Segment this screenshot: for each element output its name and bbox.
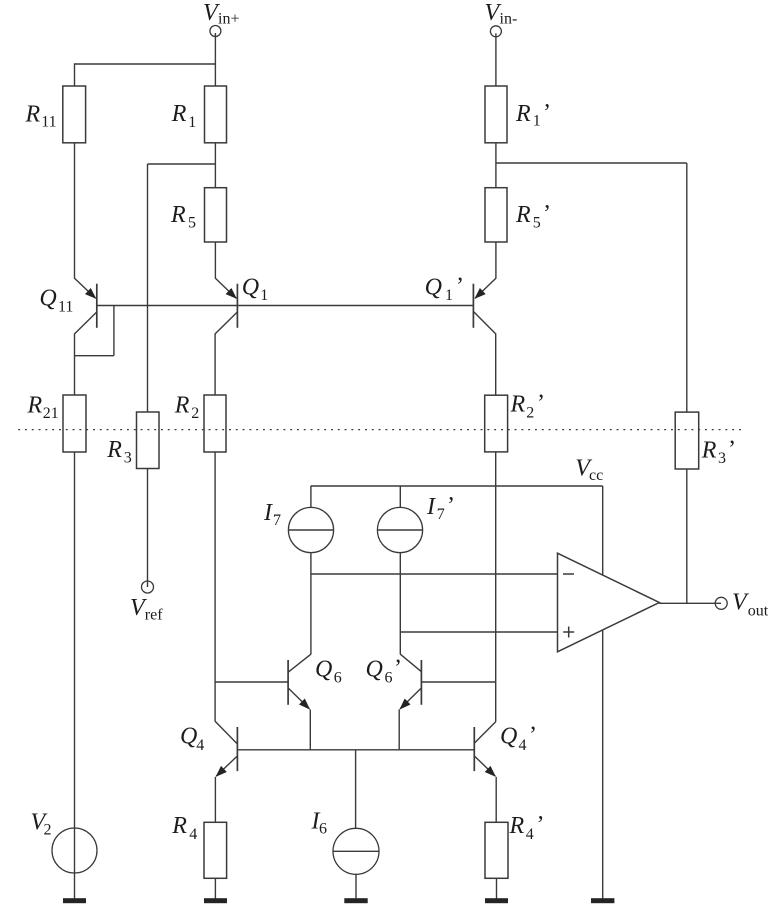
resistor R5 — [205, 188, 227, 242]
transistor Q4 collector — [215, 721, 237, 743]
svg-text:R: R — [509, 813, 525, 839]
transistor Q4 emitter — [216, 756, 237, 777]
transistor Q4' base bar — [473, 727, 475, 771]
wire base bus Q11-Q1-Q1p — [97, 305, 474, 307]
transistor Q1' collector — [474, 312, 496, 334]
svg-text:2: 2 — [191, 405, 199, 422]
wire top-left horizontal — [75, 63, 216, 65]
transistor Q1' base bar — [472, 284, 474, 328]
svg-text:1: 1 — [445, 287, 453, 304]
transistor Q11 base bar — [96, 284, 98, 328]
wire op-amp output — [659, 602, 721, 604]
wire Q6 base — [215, 681, 288, 683]
svg-text:7: 7 — [273, 512, 281, 529]
resistor R3' — [675, 412, 699, 469]
svg-text:in-: in- — [500, 11, 518, 28]
current source I7' — [377, 507, 422, 552]
transistor Q4 base bar — [236, 727, 238, 771]
ground under R4' — [485, 898, 508, 903]
label R1' — [515, 100, 551, 130]
source V2 — [52, 828, 97, 873]
wire Q1p collector to R2p — [495, 334, 497, 396]
svg-text:6: 6 — [319, 821, 327, 838]
svg-text:R: R — [174, 393, 190, 419]
label R5 — [170, 202, 196, 232]
ground under Vcc — [591, 898, 614, 903]
label R3 — [106, 437, 132, 467]
wire Q6' base — [421, 681, 495, 683]
label Q4 — [180, 724, 204, 755]
label Q1 — [242, 275, 268, 305]
svg-text:2: 2 — [44, 822, 52, 839]
label Q1' — [425, 274, 464, 305]
wire Vin+ to R1 — [214, 33, 216, 86]
svg-text:Q: Q — [500, 724, 517, 750]
svg-text:3: 3 — [718, 450, 726, 467]
svg-text:4: 4 — [519, 737, 527, 754]
svg-text:R: R — [171, 101, 187, 127]
label R3' — [701, 437, 736, 468]
ground under R4 — [204, 898, 227, 903]
wire branch right horizontal — [496, 162, 687, 164]
wire Q6p emitter down — [398, 710, 400, 750]
svg-text:4: 4 — [196, 737, 204, 754]
svg-text:R: R — [701, 438, 717, 464]
svg-text:’: ’ — [543, 201, 551, 227]
svg-text:Q: Q — [39, 286, 56, 312]
transistor Q1' emitter — [474, 278, 496, 299]
wire down to R11 — [74, 63, 76, 86]
resistor R4' — [485, 822, 508, 878]
svg-text:R: R — [170, 202, 186, 228]
transistor Q1 emitter — [215, 278, 237, 299]
resistor R3 — [137, 412, 160, 469]
current source I7 — [288, 507, 333, 552]
svg-text:’: ’ — [529, 723, 537, 749]
label Q6' — [366, 656, 403, 687]
label Q6 — [315, 657, 342, 687]
op-amp U1 — [558, 553, 660, 652]
svg-text:’: ’ — [537, 391, 545, 417]
label R4 — [171, 813, 197, 843]
label R11 — [25, 101, 57, 130]
transistor Q6 base bar — [287, 660, 289, 705]
label R2' — [510, 391, 546, 422]
op-amp minus sign — [563, 573, 574, 575]
terminal Vref — [142, 581, 154, 593]
svg-text:5: 5 — [188, 215, 196, 232]
svg-text:R: R — [27, 393, 43, 419]
wire Q4p emitter to R4p — [495, 777, 497, 823]
transistor Q11 emitter — [75, 278, 97, 299]
svg-text:V: V — [732, 590, 749, 616]
resistor R1' — [485, 86, 507, 143]
wire I6 to ground — [355, 874, 357, 899]
transistor Q6' base bar — [420, 660, 422, 705]
wire Q11 diode stub horizontal — [75, 355, 114, 357]
svg-text:R: R — [25, 101, 41, 127]
terminal Vin- — [490, 26, 501, 37]
svg-text:’: ’ — [728, 437, 736, 463]
svg-text:6: 6 — [385, 670, 393, 687]
wire R2 down to Q4 collector — [214, 452, 216, 722]
transistor Q6' emitter — [399, 688, 421, 709]
label Q11 — [39, 286, 73, 316]
terminal Vin+ — [210, 26, 221, 37]
wire op-amp plus input — [400, 631, 557, 633]
wire Q11 diode stub vertical — [113, 306, 115, 356]
wire I7p to Q6p collector — [399, 553, 401, 655]
svg-text:11: 11 — [58, 299, 73, 316]
svg-text:1: 1 — [533, 113, 541, 130]
svg-text:I: I — [426, 494, 436, 520]
svg-text:’: ’ — [447, 493, 455, 519]
svg-text:R: R — [171, 813, 187, 839]
svg-text:1: 1 — [188, 114, 196, 131]
ground under I6 — [344, 898, 367, 903]
wire R1p to R5p — [495, 143, 497, 188]
resistor R1 — [205, 86, 227, 143]
label Vcc — [575, 456, 603, 485]
ground under V2 — [63, 898, 86, 903]
label Q4' — [500, 723, 537, 755]
label I7' — [426, 493, 455, 523]
svg-text:5: 5 — [533, 215, 541, 232]
svg-text:out: out — [748, 602, 769, 619]
wire R5p to Q1p emitter — [495, 242, 497, 279]
svg-text:R: R — [515, 202, 531, 228]
svg-text:Q: Q — [425, 275, 442, 301]
wire R3 column — [147, 164, 149, 412]
svg-text:’: ’ — [537, 812, 545, 838]
svg-text:R: R — [510, 392, 526, 418]
wire Q11 collector down — [74, 334, 76, 396]
svg-text:2: 2 — [526, 405, 534, 422]
transistor Q4' collector — [474, 722, 496, 744]
svg-text:Q: Q — [366, 657, 383, 683]
wire branch left horizontal — [148, 163, 216, 165]
label Vout — [732, 590, 769, 620]
op-amp plus sign — [563, 627, 574, 638]
wire Q4 emitter to R4 — [214, 777, 216, 823]
svg-text:6: 6 — [334, 670, 342, 687]
svg-text:3: 3 — [124, 450, 132, 467]
wire I7 top stub — [310, 486, 312, 507]
label R5' — [515, 201, 551, 232]
terminal Vout — [715, 597, 727, 609]
label R1 — [171, 101, 197, 131]
dotted symmetry line — [18, 429, 742, 431]
current source I6 — [333, 828, 379, 874]
wire R3p to output node — [686, 469, 688, 603]
wire R2p down to Q4p collector — [495, 452, 497, 722]
wire Vin- to R1p — [495, 33, 497, 86]
transistor Q11 collector — [75, 312, 98, 334]
wire I7 to Q6 collector — [310, 553, 312, 655]
resistor R4 — [204, 822, 227, 878]
wire op-amp minus input — [311, 573, 558, 575]
svg-text:cc: cc — [589, 467, 603, 484]
transistor Q6' collector — [400, 654, 421, 672]
wire Vcc vertical to ground — [602, 486, 604, 899]
transistor Q4' emitter — [475, 756, 496, 777]
resistor R5' — [485, 188, 507, 242]
label R2 — [174, 393, 200, 423]
svg-text:21: 21 — [43, 405, 59, 422]
resistor R11 — [63, 86, 86, 143]
wire Q4 base bus — [237, 749, 474, 751]
label Vin+ — [203, 0, 239, 27]
svg-text:4: 4 — [189, 826, 197, 843]
svg-text:’: ’ — [456, 274, 464, 300]
wire I7p top stub — [399, 486, 401, 507]
resistor R2 — [204, 395, 226, 452]
svg-text:in+: in+ — [218, 11, 239, 28]
wire I6 top — [355, 750, 357, 829]
wire R4 to ground — [214, 878, 216, 899]
resistor R21 — [63, 395, 86, 452]
resistor R2' — [485, 395, 508, 452]
svg-text:I: I — [263, 500, 273, 526]
svg-text:ref: ref — [145, 607, 163, 624]
wire Q1 collector to R2 — [214, 334, 216, 396]
label Vin- — [485, 0, 518, 27]
wire R11 to Q11 emitter — [74, 143, 76, 279]
label V2 — [31, 809, 52, 838]
label R21 — [27, 393, 59, 423]
wire R3 to Vref — [147, 469, 149, 588]
svg-text:’: ’ — [543, 100, 551, 126]
label R4' — [509, 812, 545, 843]
wire R4p to ground — [496, 878, 498, 899]
transistor Q6 collector — [289, 654, 311, 672]
svg-text:Q: Q — [180, 724, 197, 750]
wire R21 to V2 to ground — [74, 452, 76, 899]
wire R5 to Q1 emitter — [214, 242, 216, 279]
wire R3p column upper — [686, 163, 688, 412]
svg-text:1: 1 — [260, 287, 268, 304]
transistor Q1 collector — [215, 312, 238, 334]
wire R1 to R5 — [214, 143, 216, 188]
transistor Q6 emitter — [288, 688, 310, 709]
svg-text:Q: Q — [315, 657, 332, 683]
svg-text:11: 11 — [41, 114, 56, 131]
label I7 — [263, 500, 281, 529]
label Vref — [130, 595, 163, 624]
wire Vcc rail — [311, 485, 603, 487]
svg-text:R: R — [515, 101, 531, 127]
svg-text:R: R — [106, 437, 122, 463]
transistor Q1 base bar — [236, 284, 238, 328]
svg-text:4: 4 — [526, 826, 534, 843]
wire Q6 emitter down — [309, 710, 311, 750]
svg-text:Q: Q — [242, 275, 259, 301]
svg-text:7: 7 — [437, 506, 445, 523]
label I6 — [311, 809, 328, 838]
svg-text:’: ’ — [394, 656, 402, 682]
